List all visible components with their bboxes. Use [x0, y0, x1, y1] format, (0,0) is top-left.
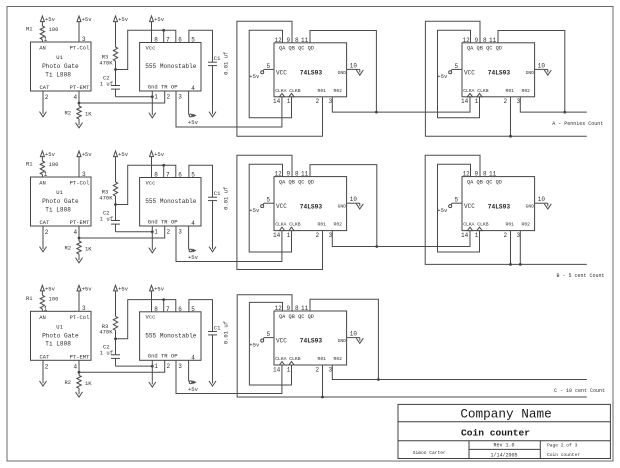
svg-text:5: 5 — [191, 172, 195, 179]
svg-text:QA QB QC QD: QA QB QC QD — [279, 314, 314, 320]
svg-text:Vcc: Vcc — [146, 314, 156, 321]
svg-text:8: 8 — [154, 37, 158, 44]
wire pin 5 to C1 rowA — [189, 30, 213, 62]
svg-text:100: 100 — [49, 295, 59, 302]
svg-text:U1: U1 — [56, 324, 63, 331]
ground U1 pin 2 rowC — [40, 380, 47, 386]
ground C1 rowB — [209, 246, 216, 252]
U5 bottom pin numbers — [273, 232, 333, 239]
svg-text:+5v: +5v — [188, 254, 199, 261]
svg-text:14: 14 — [273, 232, 281, 239]
svg-text:6: 6 — [178, 306, 182, 313]
wire R1 to U1 pin 1 rowC — [42, 305, 47, 312]
555 monostable U2 rowB — [140, 178, 201, 227]
resistor R3 rowA — [99, 47, 117, 70]
ground U3 pin 10 — [356, 69, 363, 75]
ground C1 rowA — [209, 111, 216, 117]
counter U4 74LS93 — [462, 43, 535, 97]
svg-text:R01: R01 — [506, 88, 515, 94]
+5v port 555 pin 4 rowB — [188, 249, 199, 261]
svg-text:Company Name: Company Name — [460, 406, 551, 421]
svg-text:12: 12 — [463, 171, 471, 178]
wire U7 QD rowC — [310, 299, 378, 379]
wire U4 QB to R01 and out rowA — [425, 21, 586, 136]
555 top pin numbers rowB — [154, 172, 195, 179]
svg-text:10: 10 — [350, 62, 358, 69]
svg-text:4: 4 — [191, 220, 195, 227]
capacitor C1 rowB — [208, 187, 230, 210]
+5v port rowC (PT-Col) — [77, 285, 92, 311]
capacitor C1 rowC — [208, 321, 230, 344]
svg-text:1K: 1K — [85, 111, 92, 118]
svg-text:Simon Carter: Simon Carter — [413, 450, 446, 456]
wire U5 QB to R01 rowB — [237, 155, 323, 269]
svg-text:+5v: +5v — [249, 73, 260, 80]
wire 555 output to U3 CLKA rowA — [176, 91, 282, 127]
title block divider 1 — [398, 421, 610, 423]
svg-text:+5v: +5v — [437, 73, 448, 80]
svg-text:QA QB QC QD: QA QB QC QD — [467, 46, 502, 52]
+5v port U4 VCC — [437, 69, 452, 80]
svg-text:Coin counter: Coin counter — [461, 428, 530, 439]
resistor R1 rowA — [26, 26, 58, 40]
U5 pin 5 wire — [264, 197, 274, 204]
svg-text:4: 4 — [74, 229, 78, 236]
svg-text:Vcc: Vcc — [146, 44, 156, 51]
svg-text:100: 100 — [49, 26, 59, 33]
ground 555 pin 1 rowC — [149, 381, 156, 387]
svg-text:1: 1 — [154, 363, 158, 370]
svg-text:VCC: VCC — [464, 203, 475, 210]
svg-text:R02: R02 — [334, 356, 343, 362]
svg-text:Gnd TR OP: Gnd TR OP — [148, 353, 178, 360]
counter U5 74LS93 — [274, 177, 347, 231]
svg-text:74LS93: 74LS93 — [300, 203, 323, 210]
svg-text:14: 14 — [461, 98, 469, 105]
svg-text:0.01 uf: 0.01 uf — [223, 52, 230, 75]
svg-text:R1: R1 — [26, 295, 33, 302]
+5v port rowC (R3 supply) — [114, 285, 129, 316]
svg-text:5: 5 — [267, 197, 271, 204]
svg-text:1: 1 — [287, 232, 291, 239]
node C2/555 gnd rowB — [151, 230, 154, 233]
svg-text:8: 8 — [295, 305, 299, 312]
svg-text:3: 3 — [82, 36, 86, 43]
svg-text:+5v: +5v — [45, 151, 56, 158]
svg-text:GND: GND — [526, 70, 535, 76]
svg-text:PT-Col: PT-Col — [70, 314, 90, 321]
U4 pin 10 wire — [535, 62, 548, 69]
wire U3 QB to R01 rowA — [237, 21, 323, 136]
svg-text:U1: U1 — [56, 189, 63, 196]
svg-text:+5v: +5v — [154, 16, 165, 23]
svg-text:5: 5 — [267, 331, 271, 338]
svg-text:8: 8 — [154, 172, 158, 179]
node U6 R02 rowB — [519, 263, 522, 266]
wire U7 R02 out rowC — [332, 365, 587, 380]
+5v port U3 VCC — [249, 69, 264, 80]
svg-text:AN: AN — [39, 314, 46, 321]
svg-text:1: 1 — [154, 229, 158, 236]
svg-text:9: 9 — [475, 37, 479, 44]
node U4 R01 rowA — [509, 135, 512, 138]
svg-text:555 Monostable: 555 Monostable — [145, 198, 197, 205]
svg-text:12: 12 — [275, 171, 283, 178]
svg-text:VCC: VCC — [464, 69, 475, 76]
svg-text:1: 1 — [475, 98, 479, 105]
+5v port rowB (555 Vcc) — [150, 151, 165, 178]
U7 pin 5 wire — [264, 331, 274, 338]
title block frame — [398, 404, 610, 458]
wire C1 to ground rowA — [212, 66, 214, 111]
wire U1 pin 2 rowC — [43, 360, 49, 380]
svg-text:PT-Col: PT-Col — [70, 180, 90, 187]
+5v port rowA (R1 supply) — [40, 16, 55, 26]
counter U7 74LS93 — [274, 311, 347, 365]
ground R2 rowA — [76, 122, 83, 128]
svg-text:1: 1 — [287, 98, 291, 105]
svg-text:1: 1 — [287, 366, 291, 373]
resistor R3 rowC — [99, 316, 117, 339]
svg-text:10: 10 — [538, 196, 546, 203]
wire R3 node to 555 pins 7,6 rowB — [116, 165, 164, 204]
svg-text:9: 9 — [475, 171, 479, 178]
resistor R2 rowC — [65, 372, 93, 391]
svg-text:470K: 470K — [99, 194, 113, 201]
ground U1 pin 2 rowB — [40, 246, 47, 252]
wire U6 QA to CLKB rowB — [438, 164, 480, 252]
node U6 R01 rowB — [509, 263, 512, 266]
svg-text:C1: C1 — [214, 324, 221, 331]
svg-text:2: 2 — [316, 232, 320, 239]
svg-text:7: 7 — [166, 37, 170, 44]
svg-text:555 Monostable: 555 Monostable — [145, 332, 197, 339]
svg-text:14: 14 — [273, 98, 281, 105]
node pin7 tie rowA — [162, 29, 165, 32]
svg-text:+5v: +5v — [82, 151, 93, 158]
svg-text:R02: R02 — [334, 88, 343, 94]
ground R2 rowC — [76, 391, 83, 397]
svg-text:8: 8 — [483, 37, 487, 44]
svg-text:5: 5 — [191, 306, 195, 313]
U7 top pin numbers — [275, 305, 309, 312]
svg-text:4: 4 — [191, 85, 195, 92]
svg-text:Ti L808: Ti L808 — [45, 71, 71, 78]
wire to pin 6 rowB — [164, 165, 176, 177]
svg-text:8: 8 — [154, 306, 158, 313]
wire C1 to ground rowC — [212, 335, 214, 380]
svg-text:AN: AN — [39, 180, 46, 187]
+5v port rowB (PT-Col) — [77, 151, 92, 177]
U5 top pin numbers — [275, 171, 309, 178]
svg-text:+5v: +5v — [249, 207, 260, 214]
svg-text:0.01 uf: 0.01 uf — [223, 321, 230, 344]
photo gate U1 rowA — [31, 42, 92, 91]
svg-text:Gnd TR OP: Gnd TR OP — [148, 218, 178, 225]
svg-text:470K: 470K — [99, 59, 113, 66]
svg-text:2: 2 — [45, 94, 49, 101]
svg-text:R2: R2 — [65, 110, 72, 117]
wire to pin 6 rowC — [164, 300, 176, 312]
svg-text:+5v: +5v — [45, 16, 56, 23]
node U7 QD/R02 rowC — [377, 378, 380, 381]
U1 labels rowC — [39, 314, 90, 361]
ground 555 pin 1 rowA — [149, 112, 156, 118]
svg-text:+5v: +5v — [118, 286, 129, 293]
svg-text:1: 1 — [154, 94, 158, 101]
svg-text:PT-EMT: PT-EMT — [70, 84, 91, 91]
node U5 QD/R02 rowB — [375, 245, 378, 248]
U6 clock wedges — [467, 227, 482, 230]
+5v port U5 VCC — [249, 203, 264, 214]
svg-text:11: 11 — [301, 171, 309, 178]
photo gate U1 rowB — [31, 177, 92, 226]
svg-text:CLKA CLKB: CLKA CLKB — [275, 88, 301, 94]
svg-text:CLKA CLKB: CLKA CLKB — [275, 356, 301, 362]
ground U5 pin 10 — [356, 203, 363, 209]
svg-text:11: 11 — [301, 305, 309, 312]
svg-text:Rev 1.0: Rev 1.0 — [493, 443, 514, 449]
svg-text:74LS93: 74LS93 — [488, 203, 511, 210]
svg-text:CAT: CAT — [40, 354, 51, 361]
555 labels rowB — [145, 179, 197, 225]
wire 555 pin 4 rowB — [189, 220, 196, 250]
wire U1 pin 4 rowC — [74, 360, 80, 372]
svg-text:2: 2 — [167, 229, 171, 236]
svg-text:QA QB QC QD: QA QB QC QD — [279, 46, 314, 52]
svg-text:10: 10 — [350, 331, 358, 338]
resistor R1 rowB — [26, 161, 58, 175]
svg-text:8: 8 — [295, 171, 299, 178]
wire to pin 6 rowA — [164, 30, 176, 42]
wire U7 R01 stub rowC — [322, 365, 324, 397]
ground 555 pin 1 rowB — [149, 247, 156, 253]
svg-text:74LS93: 74LS93 — [300, 70, 323, 77]
svg-text:2: 2 — [167, 363, 171, 370]
svg-text:Page 2 of 3: Page 2 of 3 — [547, 442, 578, 448]
svg-text:12: 12 — [275, 37, 283, 44]
svg-text:C1: C1 — [214, 55, 221, 62]
+5v port rowA (PT-Col) — [77, 16, 92, 42]
svg-text:9: 9 — [287, 37, 291, 44]
svg-text:1 uf: 1 uf — [100, 350, 113, 357]
svg-text:Vcc: Vcc — [146, 179, 156, 186]
555 labels rowA — [145, 44, 197, 90]
wire pin4 to 555 TR rowB — [79, 226, 165, 238]
U3 pin 10 wire — [347, 62, 360, 69]
wire U3 R02 / cascade to U4 CLKA rowA — [332, 97, 470, 112]
wire U6 R01 stub rowB — [510, 231, 512, 265]
wire R3 node to 555 pins 7,6 rowA — [116, 30, 164, 69]
+5v port rowB (R3 supply) — [114, 151, 129, 182]
svg-text:6: 6 — [178, 37, 182, 44]
svg-text:CLKA CLKB: CLKA CLKB — [275, 222, 301, 228]
node U7 R01 rowC — [321, 396, 324, 399]
wire pin4 to 555 TR rowA — [79, 91, 165, 103]
svg-text:R2: R2 — [65, 379, 72, 386]
svg-text:Photo Gate: Photo Gate — [42, 63, 79, 70]
svg-text:GND: GND — [338, 204, 347, 210]
svg-text:8: 8 — [483, 171, 487, 178]
555 top pin numbers rowC — [154, 306, 195, 313]
U1 labels rowA — [39, 45, 90, 92]
wire U5 QD rowB — [310, 165, 377, 247]
svg-text:+5v: +5v — [154, 151, 165, 158]
+5v port rowC (555 Vcc) — [150, 285, 165, 312]
ground U1 pin 2 rowA — [40, 111, 47, 117]
svg-text:C1: C1 — [214, 190, 221, 197]
+5v port 555 pin 4 rowA — [188, 114, 199, 126]
svg-text:3: 3 — [178, 363, 182, 370]
svg-text:11: 11 — [301, 37, 309, 44]
wire pin 7 stub rowA — [163, 30, 165, 42]
wire U1 pin 4 rowA — [74, 91, 80, 103]
svg-text:2: 2 — [316, 98, 320, 105]
U4 pin 5 wire — [452, 63, 462, 70]
wire pin 7 stub rowB — [163, 165, 165, 177]
wire U1 pin 2 rowA — [43, 91, 49, 111]
555 monostable U2 rowC — [140, 312, 201, 361]
wire pin4 to 555 TR rowC — [79, 360, 165, 372]
svg-text:3: 3 — [82, 305, 86, 312]
svg-text:2: 2 — [316, 366, 320, 373]
svg-text:Photo Gate: Photo Gate — [42, 198, 79, 205]
svg-text:74LS93: 74LS93 — [488, 70, 511, 77]
node pin7 tie rowB — [162, 164, 165, 167]
svg-text:+5v: +5v — [45, 286, 56, 293]
svg-text:+5v: +5v — [249, 341, 260, 348]
svg-text:VCC: VCC — [276, 69, 287, 76]
svg-text:5: 5 — [191, 37, 195, 44]
U6 bottom pin numbers — [461, 232, 521, 239]
wire C2 to 555 gnd rowA — [116, 96, 153, 98]
svg-text:0.01 uf: 0.01 uf — [223, 187, 230, 210]
node U1.4/R2/TR rowA — [78, 102, 81, 105]
wire 555 output to U5 CLKA rowB — [176, 226, 282, 262]
U3 clock wedges — [279, 93, 294, 96]
svg-text:14: 14 — [273, 366, 281, 373]
svg-text:R2: R2 — [65, 245, 72, 252]
resistor R3 rowB — [99, 182, 117, 205]
ground U4 pin 10 — [544, 69, 551, 75]
wire 555 pin 4 rowC — [189, 354, 196, 381]
svg-text:1 uf: 1 uf — [100, 80, 113, 87]
svg-text:5: 5 — [455, 63, 459, 70]
+5v port 555 pin 4 rowC — [188, 380, 199, 392]
555 monostable U2 rowA — [140, 43, 201, 92]
wire C1 to ground rowB — [212, 201, 214, 246]
title block divider 2 — [398, 440, 610, 442]
node C2/555 gnd rowC — [151, 365, 154, 368]
svg-text:R02: R02 — [334, 222, 343, 228]
svg-text:74LS93: 74LS93 — [300, 338, 323, 345]
svg-text:12: 12 — [463, 37, 471, 44]
svg-text:Gnd TR OP: Gnd TR OP — [148, 83, 178, 90]
+5v port rowA (R3 supply) — [114, 16, 129, 47]
U7 bottom pin numbers — [273, 366, 333, 373]
svg-text:+5v: +5v — [118, 16, 129, 23]
wire R1 to U1 pin 1 rowA — [42, 36, 47, 43]
node R3/C2/THR rowA — [114, 68, 117, 71]
svg-text:12: 12 — [275, 305, 283, 312]
title block column dividers — [469, 441, 540, 459]
svg-text:2: 2 — [504, 232, 508, 239]
capacitor C1 rowA — [208, 52, 230, 75]
wire U5 QA to CLKB rowB — [249, 164, 291, 252]
ground U7 pin 10 — [356, 338, 363, 344]
wire R1 to U1 pin 1 rowB — [42, 171, 47, 178]
node U1.4/R2/TR rowC — [78, 371, 81, 374]
svg-text:R01: R01 — [318, 356, 327, 362]
U3 pin 5 wire — [264, 63, 274, 70]
svg-text:5: 5 — [267, 63, 271, 70]
wire pin 5 to C1 rowB — [189, 165, 213, 197]
svg-text:9: 9 — [287, 305, 291, 312]
wire 555 output to U7 CLKA rowC — [176, 360, 282, 393]
svg-text:PT-EMT: PT-EMT — [70, 354, 91, 361]
+5v port rowA (555 Vcc) — [150, 16, 165, 43]
wire U4 QD rowA — [498, 31, 565, 113]
U4 top pin numbers — [463, 37, 497, 44]
svg-text:10: 10 — [538, 62, 546, 69]
svg-text:4: 4 — [74, 94, 78, 101]
U5 pin 10 wire — [347, 196, 360, 203]
U5 labels — [275, 179, 346, 227]
U7 pin 10 wire — [347, 331, 360, 338]
node U4 QD/R02 rowA — [563, 111, 566, 114]
svg-text:R1: R1 — [26, 161, 33, 168]
+5v port rowC (R1 supply) — [40, 285, 55, 295]
resistor R1 rowC — [26, 295, 58, 309]
svg-text:470K: 470K — [99, 329, 113, 336]
U4 bottom pin numbers — [461, 98, 521, 105]
svg-text:VCC: VCC — [276, 338, 287, 345]
svg-text:8: 8 — [295, 37, 299, 44]
svg-text:+5v: +5v — [188, 386, 199, 393]
wire pin 7 stub rowC — [163, 300, 165, 312]
+5v port U7 VCC — [249, 338, 264, 349]
ground R2 rowB — [76, 257, 83, 263]
svg-text:6: 6 — [178, 172, 182, 179]
svg-text:R01: R01 — [318, 222, 327, 228]
svg-text:7: 7 — [166, 306, 170, 313]
counter U3 74LS93 — [274, 43, 347, 97]
svg-text:A - Pennies Count: A - Pennies Count — [552, 121, 603, 127]
node R3/C2/THR rowB — [114, 203, 117, 206]
svg-text:4: 4 — [191, 354, 195, 361]
svg-text:QA QB QC QD: QA QB QC QD — [279, 179, 314, 185]
svg-text:+5v: +5v — [188, 119, 199, 126]
+5v port rowB (R1 supply) — [40, 151, 55, 161]
wire U7 QB to R01 and out rowC — [237, 295, 587, 397]
wire U1 pin 4 rowB — [74, 226, 80, 238]
svg-text:+5v: +5v — [82, 16, 93, 23]
wire 555 pin 1 rowC — [152, 360, 158, 381]
svg-text:VCC: VCC — [276, 203, 287, 210]
wire 555 pin 1 rowB — [152, 226, 158, 247]
svg-text:U1: U1 — [56, 54, 63, 61]
svg-text:+5v: +5v — [154, 286, 165, 293]
svg-text:5: 5 — [455, 197, 459, 204]
capacitor C2 rowA — [100, 70, 120, 97]
counter U6 74LS93 — [462, 177, 535, 231]
resistor R2 rowA — [65, 103, 93, 122]
svg-text:1K: 1K — [85, 246, 92, 253]
wire U6 R02 stub rowB — [519, 231, 521, 265]
U5 clock wedges — [279, 227, 294, 230]
svg-text:C - 10 cent Count: C - 10 cent Count — [554, 388, 605, 394]
svg-text:555 Monostable: 555 Monostable — [145, 63, 197, 70]
